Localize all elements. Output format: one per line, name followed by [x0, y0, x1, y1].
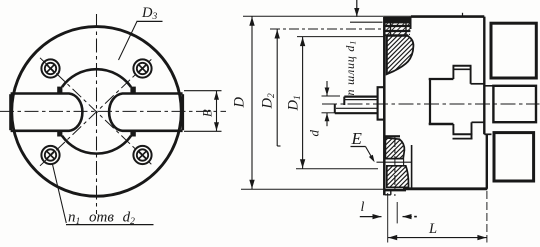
dimension D line: [251, 16, 253, 189]
bolt hole center tick: [403, 159, 405, 167]
drum bottom edge: [403, 187, 487, 190]
spline shaft top edge: [344, 95, 377, 97]
flange bottom foot: [390, 190, 392, 195]
drum right edge upper: [483, 17, 485, 135]
drum jog top: [484, 85, 493, 87]
dimension D2 hook: [277, 145, 280, 147]
flange web section (hatched): [387, 36, 414, 74]
bolt hole bottom-right: [133, 146, 151, 164]
left view diagonal centerline TL-BR: [40, 58, 153, 166]
bolt hole top-right: [133, 59, 151, 77]
drum inner rim bottom vertical: [411, 145, 413, 189]
bolt axis centerline vertical: [394, 137, 396, 196]
dimension D1 arrow top: [300, 37, 305, 46]
drum top edge: [411, 15, 484, 18]
dimension D arrow bottom: [249, 180, 254, 189]
dimension D1 extension bottom: [296, 168, 378, 170]
top rim right edge: [410, 17, 412, 29]
top bushing block: [491, 23, 536, 78]
svg-text:В: В: [201, 109, 215, 117]
hub step tab top-right: [130, 87, 135, 94]
flange face line: [383, 17, 386, 195]
hub circle bottom arc: [62, 136, 131, 154]
svg-text:D3: D3: [141, 5, 157, 22]
dimension D1 extension top: [297, 36, 384, 38]
spline line lower: [336, 107, 377, 109]
bolt dimension line top: [356, 0, 358, 17]
dimension B line: [216, 91, 218, 132]
bolt hole axis horizontal: [377, 161, 412, 163]
svg-text:l: l: [361, 200, 365, 215]
svg-text:L: L: [428, 221, 437, 237]
left view diagonal centerline BL-TR: [40, 58, 153, 166]
label E underline: [351, 146, 366, 148]
flange web inner line: [386, 36, 388, 74]
dimension L extension left: [387, 193, 389, 243]
bolt hole bottom-left: [41, 146, 59, 164]
drum jog bottom: [484, 133, 491, 135]
dimension D1 line: [302, 37, 304, 169]
hub step tab top-left: [57, 87, 62, 94]
bottom rim upper section (hatched): [385, 138, 404, 159]
svg-text:D2: D2: [260, 93, 278, 109]
top rim line 4: [384, 34, 408, 36]
bottom recess floor: [385, 135, 400, 137]
drum top extension tick: [462, 13, 464, 17]
dimension l arrow left: [373, 214, 382, 219]
top rim inner vertical a: [390, 23, 392, 35]
dimension D1 arrow bottom: [300, 159, 305, 168]
dimension l left segment: [360, 216, 382, 218]
right slot end cap: [181, 94, 184, 130]
dimension B extension line top: [184, 90, 222, 92]
label n1 otv d2 leader: [52, 164, 66, 224]
bolt dimension extension: [350, 21, 383, 23]
top rim dark band: [384, 17, 411, 24]
section view axis centerline: [322, 103, 540, 105]
svg-text:D: D: [232, 97, 248, 109]
dimension l tail dash: [414, 216, 417, 218]
drum jaw boss: [429, 66, 485, 139]
dimension L arrow left: [388, 235, 397, 240]
dimension l right extension: [396, 202, 398, 223]
top rim line 3: [384, 30, 410, 32]
dimension D2 arrow top: [275, 30, 280, 39]
svg-text:п шлиц d1: п шлиц d1: [343, 40, 358, 96]
spline line upper: [345, 99, 377, 101]
dimension B extension line bottom: [184, 130, 222, 132]
bolt hole top-left: [41, 59, 59, 77]
dimension L extension right: [486, 191, 488, 243]
left view vertical centerline: [96, 14, 98, 214]
dimension D extension bottom: [241, 188, 403, 190]
top rim line 2: [384, 25, 410, 27]
dimension d arrow lower: [325, 113, 330, 121]
label n1 otv d2 underline: [66, 224, 154, 226]
left view outer circle: [12, 27, 182, 197]
left slot end cap: [9, 94, 12, 130]
dimension D extension top: [243, 15, 411, 17]
dimension B arrow bottom: [214, 122, 219, 131]
right slot outline: [109, 94, 183, 131]
hub face ring: [378, 87, 385, 119]
hub step tab bottom-right: [130, 131, 135, 137]
left view horizontal centerline: [0, 110, 226, 112]
svg-text:D1: D1: [286, 95, 304, 111]
spline shaft bottom edge: [335, 112, 378, 114]
dimension d line lower: [326, 113, 328, 126]
dimension d arrow upper: [325, 88, 330, 96]
dimension B arrow top: [214, 91, 219, 100]
bottom bushing block: [494, 133, 534, 181]
spline shaft lower end cap: [334, 104, 336, 114]
bolt dimension arrow: [354, 8, 359, 17]
label D3 underline: [137, 20, 163, 22]
flange bottom edge: [385, 189, 406, 191]
dimension D2 extension top: [270, 28, 383, 30]
middle hub block: [493, 86, 536, 122]
drum right edge lower: [486, 134, 488, 189]
top rim inner vertical b: [405, 23, 407, 35]
dimension d extension bottom: [322, 112, 337, 114]
dimension D arrow top: [249, 17, 254, 26]
dimension d line upper: [326, 81, 328, 96]
spline shaft upper end cap: [343, 97, 345, 105]
dimension d extension top: [322, 95, 341, 97]
hub circle top arc: [62, 69, 131, 87]
svg-text:E: E: [351, 129, 363, 148]
dimension l right segment: [403, 216, 412, 218]
dimension D2 line: [276, 29, 278, 146]
hub step tab bottom-left: [57, 131, 62, 137]
dimension L line: [388, 237, 487, 239]
label E leader: [366, 147, 374, 161]
svg-text:d: d: [307, 130, 322, 137]
label E leader arrow: [369, 155, 375, 163]
dimension l arrow right: [403, 214, 412, 219]
label D3 leader: [119, 21, 138, 60]
dimension L arrow right: [477, 235, 486, 240]
bottom rim lower section (hatched): [387, 166, 409, 188]
left slot outline: [11, 94, 83, 131]
